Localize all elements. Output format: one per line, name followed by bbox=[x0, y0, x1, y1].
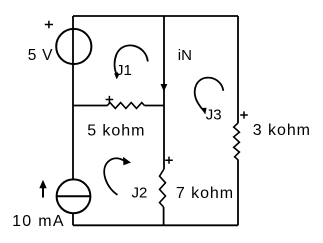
svg-text:7 kohm: 7 kohm bbox=[176, 185, 234, 202]
J3 arrowhead bbox=[201, 108, 207, 115]
svg-text:iN: iN bbox=[178, 47, 192, 64]
voltage source V1 circle (5 V) bbox=[56, 29, 91, 64]
wire middle horizontal left bbox=[73, 105, 108, 107]
svg-text:5 V: 5 V bbox=[28, 47, 53, 64]
svg-text:5 kohm: 5 kohm bbox=[87, 122, 145, 139]
J2 arrowhead bbox=[123, 157, 131, 165]
svg-text:J1: J1 bbox=[116, 62, 132, 79]
wire middle vertical lower bbox=[163, 207, 165, 225]
svg-text:3 kohm: 3 kohm bbox=[253, 122, 311, 139]
wire left lower stub bbox=[72, 214, 74, 225]
svg-text:10 mA: 10 mA bbox=[12, 213, 65, 230]
plus at 7 kohm bbox=[165, 157, 173, 164]
plus at 3 kohm bbox=[240, 111, 248, 118]
wire right upper bbox=[237, 16, 239, 123]
wire bottom bbox=[73, 224, 238, 226]
plus at 5 kohm bbox=[106, 96, 114, 103]
svg-text:J2: J2 bbox=[132, 184, 148, 201]
resistor R1 5 kohm (horizontal zigzag) bbox=[107, 103, 144, 109]
current source bar bbox=[57, 195, 91, 197]
wire left (through 5V source, down to current source top) bbox=[72, 16, 74, 179]
mesh loop J1 arc bbox=[115, 45, 148, 75]
iN current arrow (down, on middle wire) bbox=[161, 84, 168, 92]
plus polarity of V1 bbox=[45, 21, 53, 29]
svg-text:J3: J3 bbox=[206, 107, 222, 124]
wire top bbox=[73, 15, 238, 17]
current direction arrow (up) bbox=[42, 186, 44, 198]
wire middle horizontal right bbox=[144, 105, 164, 107]
J1 arrowhead bbox=[114, 73, 120, 79]
wire right lower bbox=[237, 160, 239, 226]
wire middle vertical upper bbox=[163, 16, 165, 169]
resistor R2 7 kohm (vertical zigzag on middle wire) bbox=[160, 169, 166, 207]
mesh loop J2 arc bbox=[104, 158, 124, 194]
current source I1 circle (10 mA) bbox=[57, 179, 91, 213]
resistor R3 3 kohm (vertical zigzag on right wire) bbox=[234, 123, 240, 160]
mesh loop J3 arc bbox=[195, 78, 224, 111]
